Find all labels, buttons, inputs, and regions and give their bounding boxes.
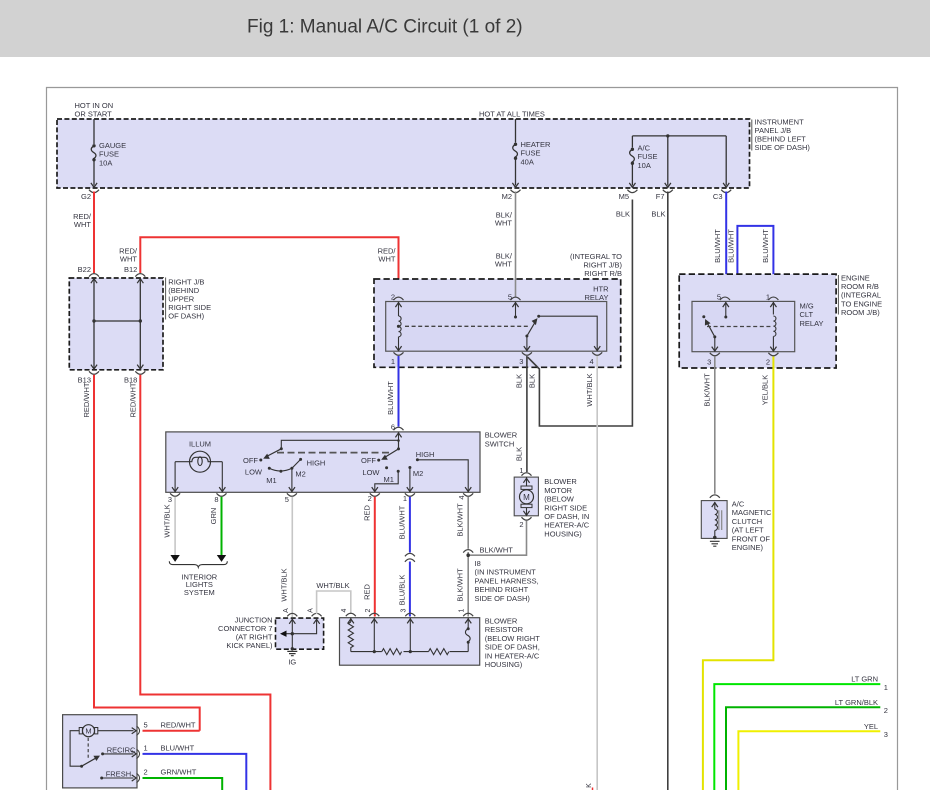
svg-text:10A: 10A [638,161,651,170]
svg-text:A/C: A/C [638,143,651,152]
brace interior lights system [169,561,227,567]
connector M5 [627,190,637,193]
wire WHT/BLK HTR pin4 long run [596,356,598,790]
svg-text:1: 1 [884,683,888,692]
connector G2 [89,190,99,193]
svg-text:1: 1 [519,466,523,475]
blower motor [522,473,532,476]
pin 5 [511,297,521,300]
resistor zigzag horizontal 2 [429,649,449,655]
svg-text:BLU/WHT: BLU/WHT [713,229,722,263]
svg-text:WHT: WHT [120,255,137,264]
svg-text:BLK: BLK [515,447,524,461]
junction F7 tap [666,134,669,137]
svg-text:BLK/WHT: BLK/WHT [456,503,465,537]
engine room R/B (dashed box) [679,274,836,368]
wire LT GRN/BLK [726,707,880,790]
wire YEL [738,731,880,790]
switch blade [702,315,705,318]
servo pins arcs [137,726,140,736]
wire contact to pin3 [714,337,716,352]
connector B22 [89,274,99,277]
svg-text:YEL/BLK: YEL/BLK [761,375,770,405]
pin 5 [720,297,730,300]
ground IG [291,647,294,650]
svg-text:IG: IG [288,658,296,667]
svg-text:OF DASH, IN: OF DASH, IN [544,512,589,521]
relay switch common feed pin5 [515,302,517,317]
svg-text:MAGNETIC: MAGNETIC [732,508,772,517]
svg-text:BLK/WHT: BLK/WHT [455,568,464,602]
svg-text:LOW: LOW [362,468,380,477]
wire F7 drop [667,136,669,186]
connector B18 [135,371,145,374]
svg-text:RELAY: RELAY [800,319,824,328]
lamp wires to pins 3 and 8 [175,462,222,492]
wire BLK/WHT M2 to HTR pin5 [515,192,517,297]
pin 2 [768,353,778,356]
junction connector 7 (dashed box) [287,613,297,616]
svg-text:A/C: A/C [732,500,745,509]
A/C magnetic clutch [701,501,727,539]
label right J/B [165,278,167,320]
svg-text:3: 3 [168,495,172,504]
wire BLU/WHT pin1 with inline connector to resistor pin3 [409,497,411,553]
svg-text:WHT: WHT [495,219,512,228]
svg-text:BLU/BLK: BLU/BLK [397,575,406,606]
svg-text:HEATER: HEATER [521,140,551,149]
svg-text:M: M [523,493,530,502]
svg-text:HTR: HTR [593,285,609,294]
svg-text:(IN INSTRUMENT: (IN INSTRUMENT [475,568,537,577]
svg-text:WHT/BLK: WHT/BLK [163,504,172,537]
svg-text:Fig 1: Manual A/C Circuit (1 o: Fig 1: Manual A/C Circuit (1 of 2) [247,17,523,38]
relay switch blade [537,315,540,318]
svg-text:HOT AT ALL TIMES: HOT AT ALL TIMES [479,110,545,119]
wire B22-B13 through J/B [93,278,95,370]
svg-text:FUSE: FUSE [638,152,658,161]
svg-text:2: 2 [519,520,523,529]
wire RED pin2 to resistor pin2 [374,497,376,617]
svg-text:GRN/WHT: GRN/WHT [161,768,197,777]
svg-text:WHT/BLK: WHT/BLK [585,373,594,406]
wire pivot to pin4 [539,316,598,351]
wire RED/WHT B18 long run to bottom [140,375,270,790]
svg-text:RED: RED [362,584,371,600]
svg-text:HIGH: HIGH [416,450,435,459]
resistor zigzag horizontal 1 [382,649,402,655]
svg-text:1: 1 [144,744,148,753]
svg-text:40A: 40A [521,157,534,166]
junction I8 [466,553,470,557]
svg-text:RESISTOR: RESISTOR [485,625,524,634]
relay coil [398,302,400,316]
fuse HEATER FUSE 40A [513,119,518,186]
svg-text:CLUTCH: CLUTCH [732,517,762,526]
wire GRN/WHT servo pin2 [143,778,223,790]
wire BLK HTR pin3 branch to M5 [528,200,633,427]
svg-text:CLT: CLT [800,310,814,319]
wire WHT/BLK bridge junction to resistor pin4 [317,591,351,614]
wire BLK/WHT pin3 to A/C clutch [714,357,716,494]
switch section 1 blade [280,447,283,450]
servo contacts RECIRC FRESH [101,752,104,755]
pin 3 [710,353,720,356]
svg-text:3: 3 [401,608,408,612]
svg-text:BLOWER: BLOWER [544,477,577,486]
svg-text:B12: B12 [124,265,137,274]
connector M2 [511,190,521,193]
svg-text:5: 5 [717,293,721,302]
svg-text:HOUSING): HOUSING) [485,660,523,669]
fuse GAUGE FUSE 10A [91,119,96,186]
svg-text:M5: M5 [619,192,629,201]
svg-text:4: 4 [341,608,348,612]
label engine room R/B [837,275,839,315]
svg-text:I8: I8 [475,559,481,568]
svg-text:10A: 10A [99,158,112,167]
svg-text:RED/WHT: RED/WHT [128,382,137,417]
svg-text:GAUGE: GAUGE [99,141,126,150]
wire BLK F7 long run [667,192,669,791]
svg-text:BLU/WHT: BLU/WHT [761,229,770,263]
svg-text:1: 1 [766,293,770,302]
svg-text:2: 2 [365,608,372,612]
wire WHT/BLK pin3 to interior lights [174,497,176,555]
svg-text:IN HEATER-A/C: IN HEATER-A/C [485,651,540,660]
svg-text:BLU/WHT: BLU/WHT [726,229,735,263]
svg-text:SIDE OF DASH): SIDE OF DASH) [755,143,811,152]
svg-text:RED/WHT: RED/WHT [161,720,196,729]
wire RED/WHT B13 long run to recirc servo pin5 [94,375,200,731]
svg-text:RIGHT SIDE: RIGHT SIDE [544,503,587,512]
svg-text:BLU/WHT: BLU/WHT [397,505,406,539]
section 1 contacts [259,459,262,462]
svg-text:ENGINE): ENGINE) [732,543,764,552]
resistor thermal fuse pin1 [467,618,469,628]
relay body [386,302,607,352]
svg-text:OR START: OR START [75,110,113,119]
svg-text:(BELOW: (BELOW [544,495,575,504]
svg-text:HOUSING): HOUSING) [544,529,582,538]
svg-text:BLOWER: BLOWER [485,617,518,626]
wire contact to pin3 [526,336,528,351]
resistor internals [350,618,352,622]
svg-text:M2: M2 [295,469,305,478]
svg-text:G2: G2 [81,192,91,201]
svg-text:RIGHT R/B: RIGHT R/B [584,269,622,278]
svg-text:HIGH: HIGH [307,459,326,468]
header bar [0,0,930,57]
svg-text:MOTOR: MOTOR [544,486,572,495]
svg-text:OFF: OFF [361,456,376,465]
svg-text:BLK: BLK [616,210,630,219]
instrument panel J/B (dashed box) [57,119,750,188]
svg-text:GRN: GRN [209,508,218,525]
pin 2 [394,297,404,300]
relay coil pin1-pin2 [772,302,774,315]
svg-text:4: 4 [590,357,594,366]
svg-text:FUSE: FUSE [521,149,541,158]
wire WHT/BLK pin5 to junction connector [291,497,293,617]
svg-text:F7: F7 [656,192,665,201]
HTR relay (dashed box) [374,279,621,367]
svg-text:1: 1 [403,494,407,503]
wire BLK HTR pin3 to blower motor [526,356,528,472]
ground [710,541,720,546]
servo dashed link [87,738,89,760]
svg-text:5: 5 [285,495,289,504]
servo motor M [79,728,82,734]
svg-text:6: 6 [391,423,395,432]
wire RED/WHT B12 feed to HTR pin2 [140,237,398,296]
junction internals [291,618,293,649]
svg-text:ILLUM: ILLUM [189,440,211,449]
svg-text:M1: M1 [266,476,276,485]
svg-text:(BELOW RIGHT: (BELOW RIGHT [485,634,540,643]
section 2 HIGH to pin4 [417,460,468,492]
svg-text:WHT/BLK: WHT/BLK [280,568,289,601]
wire YEL/BLK pin2 down and left to bottom [703,357,774,791]
svg-text:OF DASH): OF DASH) [168,312,204,321]
wire B12-B18 through J/B [139,278,141,370]
svg-text:OFF: OFF [243,456,258,465]
blower resistor box [346,613,356,616]
svg-text:M2: M2 [502,192,512,201]
wire BLU/WHT HTR pin1 to blower switch pin6 [398,356,400,427]
connector C3 [721,190,731,193]
svg-text:SIDE OF DASH,: SIDE OF DASH, [485,643,540,652]
svg-text:BLK/WHT: BLK/WHT [480,545,514,554]
svg-text:SWITCH: SWITCH [485,439,515,448]
svg-text:RELAY: RELAY [584,293,608,302]
wire motor left to switch [70,731,82,767]
svg-text:SYSTEM: SYSTEM [184,588,215,597]
label instrument panel J/B [751,120,753,151]
svg-text:KICK PANEL): KICK PANEL) [226,641,273,650]
connector B12 [135,274,145,277]
svg-text:LT GRN/BLK: LT GRN/BLK [835,698,878,707]
svg-text:LT GRN: LT GRN [851,675,878,684]
svg-text:WHT/BLK: WHT/BLK [316,581,349,590]
wire BLK/WHT blower motor pin2 to I8 [470,521,527,556]
wire BLU/WHT servo pin1 [143,754,247,790]
section 1 M2 to pin5 [291,468,293,491]
svg-text:RECIRC: RECIRC [107,745,136,754]
svg-text:BLK/WHT: BLK/WHT [702,373,711,407]
ganged switch dashed link [277,452,391,454]
svg-text:WHT: WHT [378,255,395,264]
wire BLU/WHT jumper pin5 to pin1 [727,226,774,297]
svg-text:BLOWER: BLOWER [485,431,518,440]
svg-text:BLK: BLK [515,374,524,388]
svg-text:BLK: BLK [651,210,665,219]
svg-text:2: 2 [368,494,372,503]
wire BLK/WHT pin4 to I8 junction [467,497,469,549]
wire A/C feed bus [632,135,726,137]
svg-text:3: 3 [519,357,523,366]
outer diagram border [47,88,898,791]
svg-text:2: 2 [144,768,148,777]
M/G CLT relay body [692,301,795,351]
connector 6 [394,427,404,430]
svg-text:A: A [283,608,290,613]
section 1 contact arc LOW-M1-M2 [269,459,300,471]
wire GRN pin8 to interior lights [221,497,223,555]
wire BLU/WHT C3 to M/G CLT pin5 [725,192,726,297]
svg-text:M: M [85,726,91,735]
svg-text:2: 2 [391,293,395,302]
recirculation servo motor box [63,715,137,788]
wire J/B crossbar [94,320,140,322]
svg-text:YEL: YEL [864,722,878,731]
svg-text:2: 2 [766,358,770,367]
svg-text:(AT LEFT: (AT LEFT [732,526,764,535]
switch feed pin5 [725,302,727,317]
svg-text:ROOM J/B): ROOM J/B) [841,308,880,317]
pin 1 [768,297,778,300]
switch section 2 blade [398,441,400,449]
svg-text:HEATER-A/C: HEATER-A/C [544,521,589,530]
svg-text:5: 5 [144,720,148,729]
svg-text:FUSE: FUSE [99,150,119,159]
right J/B (dashed box) [69,278,163,370]
svg-text:WHT: WHT [74,220,91,229]
svg-text:1: 1 [391,357,395,366]
switch section 1 feed [281,440,398,449]
svg-text:3: 3 [884,730,888,739]
svg-text:FRONT OF: FRONT OF [732,534,771,543]
svg-text:M1: M1 [383,475,393,484]
wire C3 drop [725,136,727,186]
fuse A/C FUSE 10A [630,136,635,186]
svg-text:1: 1 [458,608,465,612]
section 2 contacts [377,459,380,462]
connector B13 [89,371,99,374]
svg-text:K: K [586,783,593,788]
relay dashed link [405,325,529,327]
svg-text:5: 5 [508,293,512,302]
svg-text:M/G: M/G [800,302,814,311]
wire LT GRN [714,684,880,790]
svg-text:A: A [307,608,314,613]
svg-text:BLU/WHT: BLU/WHT [161,744,195,753]
svg-text:M2: M2 [413,469,423,478]
svg-text:BEHIND RIGHT: BEHIND RIGHT [475,585,529,594]
svg-text:FRESH: FRESH [106,770,131,779]
wire motor to pin5 [98,730,134,732]
section 2 M1 to pin2 [375,471,398,491]
dashed link [707,326,771,328]
svg-text:C3: C3 [713,192,723,201]
svg-text:SIDE OF DASH): SIDE OF DASH) [475,594,531,603]
pins 3 8 5 2 1 4 [170,493,180,496]
wire RED/WHT servo pin5 [143,730,200,732]
svg-text:3: 3 [707,358,711,367]
pin 1 [394,352,404,355]
svg-text:LOW: LOW [245,468,263,477]
svg-text:RED: RED [362,505,371,521]
svg-text:BLU/WHT: BLU/WHT [386,381,395,415]
svg-text:4: 4 [457,495,466,499]
section 2 M2 to pin1 [409,468,411,492]
svg-text:BLK: BLK [527,374,536,388]
svg-text:PANEL HARNESS,: PANEL HARNESS, [475,576,539,585]
wire RED/WHT G2 to B22 [93,192,95,274]
servo blade [82,758,97,767]
connector F7 [663,190,673,193]
svg-text:WHT: WHT [495,260,512,269]
svg-text:2: 2 [884,706,888,715]
svg-text:RED/WHT: RED/WHT [82,382,91,417]
blower switch box [166,432,480,492]
clutch coil [715,509,718,530]
pin 4 [592,352,602,355]
pin 3 [522,352,532,355]
svg-text:B22: B22 [78,265,91,274]
svg-text:8: 8 [214,495,218,504]
